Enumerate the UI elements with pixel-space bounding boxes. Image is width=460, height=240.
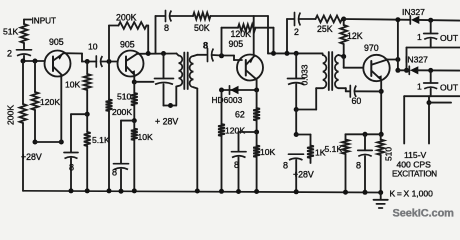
svg-text:INPUT: INPUT: [32, 17, 57, 26]
svg-text:K = X 1,000: K = X 1,000: [390, 189, 434, 199]
transistor Q1 905: [45, 51, 71, 77]
transistor Q3 905: [237, 55, 263, 81]
capacitor C3 10: [95, 56, 97, 67]
svg-text:905: 905: [120, 40, 135, 50]
node excitation junction: [427, 100, 432, 105]
svg-text:62: 62: [235, 110, 245, 120]
node C11 bus junction: [294, 189, 299, 194]
svg-text:1: 1: [417, 82, 422, 92]
svg-text:120K: 120K: [40, 97, 60, 107]
capacitor C10 0.033: [288, 78, 305, 80]
node C13 top junction: [363, 132, 368, 137]
wire R10 to elbow: [211, 15, 269, 17]
wire to C8: [239, 131, 257, 133]
wire C7 to Q3 base: [213, 54, 222, 57]
resistor R3 120K: [34, 61, 36, 92]
svg-text:970: 970: [364, 43, 379, 53]
resistor R18 5.1K: [345, 134, 347, 139]
wire out1 return: [407, 47, 460, 49]
node A feedback junction: [146, 51, 151, 56]
wire excitation stub: [429, 102, 451, 104]
diode CR3 IN327: [410, 66, 418, 74]
capacitor C7 8: [207, 49, 209, 62]
svg-text:51K: 51K: [3, 27, 19, 37]
svg-text:905: 905: [49, 37, 64, 47]
wire C3 to Q2 base: [102, 61, 118, 63]
capacitor C14 1: [430, 20, 432, 33]
node C13 bus junction: [363, 190, 368, 195]
wire Q1 base line: [23, 60, 45, 62]
svg-text:400 CPS: 400 CPS: [397, 160, 432, 170]
diode CR1 HD6003: [222, 89, 257, 91]
svg-text:8: 8: [234, 160, 239, 170]
wire out2 return: [404, 95, 459, 97]
svg-text:10: 10: [88, 42, 98, 52]
resistor R5 5.1K: [86, 114, 88, 132]
node emitter network junction: [379, 132, 384, 137]
svg-text:8: 8: [164, 23, 169, 33]
svg-text:510: 510: [117, 92, 132, 102]
node diode left junction: [219, 88, 224, 93]
capacitor C15 1: [430, 70, 432, 82]
diode CR2 IN327: [411, 16, 419, 24]
ground symbol: [380, 193, 382, 200]
node R18 bus junction: [343, 190, 348, 195]
wire Q1 top lead: [64, 52, 83, 54]
wire diode1 to out: [419, 19, 460, 22]
wire E to C4: [121, 120, 134, 122]
node B bypass junction: [161, 51, 166, 56]
wire cap2 riser: [286, 19, 288, 53]
capacitor C4 8: [114, 163, 129, 165]
svg-text:1: 1: [417, 32, 422, 42]
svg-text:EXCITATION: EXCITATION: [392, 170, 437, 179]
resistor R11 120K feedback: [221, 28, 223, 56]
resistor R16 1K: [307, 146, 314, 159]
resistor R2 200K: [22, 61, 24, 104]
node diode2 feed junction: [395, 68, 400, 73]
node INPUT terminal: [24, 19, 31, 21]
node rail right junction: [59, 140, 64, 145]
node rail junction: [294, 107, 299, 112]
wire excitation right: [428, 96, 430, 143]
node R19 bus junction: [378, 190, 383, 195]
transformer T2: [323, 55, 327, 88]
node Q4 base top junction: [341, 54, 346, 59]
resistor R14 10K: [253, 146, 260, 158]
node stage3 emitter junction: [254, 130, 259, 135]
node R5 bus junction: [85, 188, 90, 193]
resistor R8 200K bias: [108, 62, 110, 100]
node J junction: [341, 17, 346, 22]
capacitor C5 collector bypass: [163, 54, 165, 79]
svg-text:OUT: OUT: [440, 33, 459, 43]
node Q1 output: [85, 59, 90, 64]
transistor Q2 905: [118, 51, 144, 77]
svg-text:HD6003: HD6003: [212, 95, 243, 105]
resistor R6 200K feedback: [108, 26, 110, 62]
svg-text:510: 510: [384, 147, 394, 161]
wire Q1 bottom lead: [60, 75, 62, 142]
svg-text:IN327: IN327: [405, 54, 428, 64]
svg-text:8: 8: [356, 161, 361, 171]
wire Q4 base: [343, 57, 345, 68]
svg-text:200K: 200K: [112, 107, 132, 117]
node R4 bottom junction: [85, 112, 90, 117]
svg-text:120K: 120K: [225, 126, 245, 136]
wire to R16 1K: [296, 134, 310, 136]
wire top right line: [342, 18, 410, 21]
svg-text:25K: 25K: [317, 24, 333, 34]
node base-bias junction: [21, 59, 26, 64]
resistor R1 51K: [21, 24, 28, 43]
resistor R7 510: [131, 93, 138, 106]
svg-text:10K: 10K: [138, 132, 154, 142]
node T2 drive junction: [294, 51, 299, 56]
svg-text:2: 2: [294, 27, 299, 37]
svg-text:50K: 50K: [194, 23, 210, 33]
svg-text:SeekIC.com: SeekIC.com: [393, 207, 455, 219]
node R9 bus junction: [132, 188, 137, 193]
resistor R9 10K: [131, 129, 138, 140]
node 1K junction: [294, 132, 299, 137]
wire Q3 collector drop: [256, 80, 258, 91]
wire cap8top riser: [155, 16, 157, 54]
wire C6 to R10: [171, 15, 194, 17]
svg-text:120K: 120K: [231, 29, 252, 39]
node C15 top junction: [428, 68, 433, 73]
capacitor C11 8: [289, 153, 304, 155]
capacitor C9 2: [294, 13, 296, 26]
wire C9 to R15: [300, 18, 316, 20]
svg-text:5.1K: 5.1K: [92, 135, 110, 145]
svg-text:8: 8: [112, 168, 117, 178]
svg-text:10K: 10K: [260, 147, 276, 157]
resistor R19 510: [377, 140, 384, 156]
resistor R10 50K: [193, 13, 211, 20]
svg-text:200K: 200K: [6, 105, 16, 125]
node C14 top junction: [428, 18, 433, 23]
wire Q2 collector: [137, 53, 177, 55]
node Q4 collector junction: [395, 57, 400, 62]
wire +28V rail: [35, 141, 61, 143]
wire rail continues: [295, 110, 297, 135]
wire D to bypass cap: [134, 81, 153, 83]
node C2 bus junction: [69, 188, 74, 193]
wire to C2 bypass: [71, 113, 87, 115]
capacitor C8 8: [232, 151, 247, 153]
svg-text:+28V: +28V: [21, 152, 42, 162]
resistor R12 62: [253, 108, 260, 121]
wire secondary to Q3 base: [197, 54, 206, 56]
wire R1 to C1: [23, 43, 25, 50]
node diode right junction: [254, 88, 259, 93]
svg-text:OUT: OUT: [440, 83, 459, 93]
transformer T1: [179, 56, 183, 86]
wire Q4 collector: [388, 59, 398, 61]
wire C1 to base node: [23, 56, 25, 61]
wire +28V rail stage3: [296, 109, 316, 111]
node R11 collector junction: [271, 51, 276, 56]
svg-text:8: 8: [69, 163, 74, 173]
svg-text:10K: 10K: [65, 80, 81, 90]
resistor R13 120K bias: [221, 90, 223, 124]
resistor R17 12K: [343, 19, 345, 25]
wire Q3 emitter riser: [253, 16, 255, 55]
svg-text:IN327: IN327: [402, 7, 425, 17]
wire Q4 emitter: [380, 80, 382, 135]
node R8 bus junction: [107, 188, 112, 193]
wire emitter network: [346, 133, 382, 135]
svg-text:2: 2: [7, 49, 12, 59]
wire ground bus: [23, 191, 381, 193]
resistor R4 10K: [86, 62, 88, 75]
transistor Q4 970: [363, 55, 389, 81]
svg-text:5.1K: 5.1K: [325, 144, 343, 154]
node E junction: [132, 118, 137, 123]
wire Q2 emitter lead: [133, 75, 135, 82]
node cap60 junction: [379, 89, 384, 94]
wire top line left: [156, 15, 166, 17]
node T1 secondary bus junction: [195, 189, 200, 194]
capacitor C6 8: [165, 11, 167, 22]
node top line junction: [395, 17, 400, 22]
svg-text:60: 60: [352, 96, 362, 106]
svg-text:0.033: 0.033: [300, 64, 310, 85]
svg-text:115-V: 115-V: [404, 150, 427, 160]
node cap2 riser junction: [285, 51, 290, 56]
svg-text:905: 905: [229, 39, 244, 49]
capacitor C12 60: [346, 90, 350, 92]
wire to C10: [295, 53, 297, 78]
svg-text:+ 28V: + 28V: [155, 117, 178, 127]
svg-text:8: 8: [203, 41, 208, 51]
svg-text:200K: 200K: [116, 13, 137, 23]
wire Q3 collector line: [268, 52, 323, 54]
node Q2 base junction: [107, 59, 112, 64]
capacitor C13 8: [364, 134, 366, 150]
capacitor C1 2: [17, 49, 32, 51]
node C8 bus junction: [236, 189, 241, 194]
svg-text:12K: 12K: [347, 31, 363, 41]
node R14 bus junction: [254, 189, 259, 194]
wire Q4 collector riser: [397, 20, 399, 71]
node C4 bus junction: [119, 189, 124, 194]
node 120K junction: [33, 59, 38, 64]
capacitor C2 8: [64, 152, 78, 154]
svg-text:8: 8: [283, 161, 288, 171]
node out1 return junction: [404, 68, 409, 73]
node D emitter junction: [132, 80, 137, 85]
node Q3 base junction: [219, 53, 224, 58]
resistor R15 25K: [316, 16, 343, 23]
node +28V rail junction: [33, 140, 38, 145]
node R13 bus junction: [219, 189, 224, 194]
wire diode2 line: [398, 69, 410, 71]
node +28V stage2 junction: [168, 103, 173, 108]
